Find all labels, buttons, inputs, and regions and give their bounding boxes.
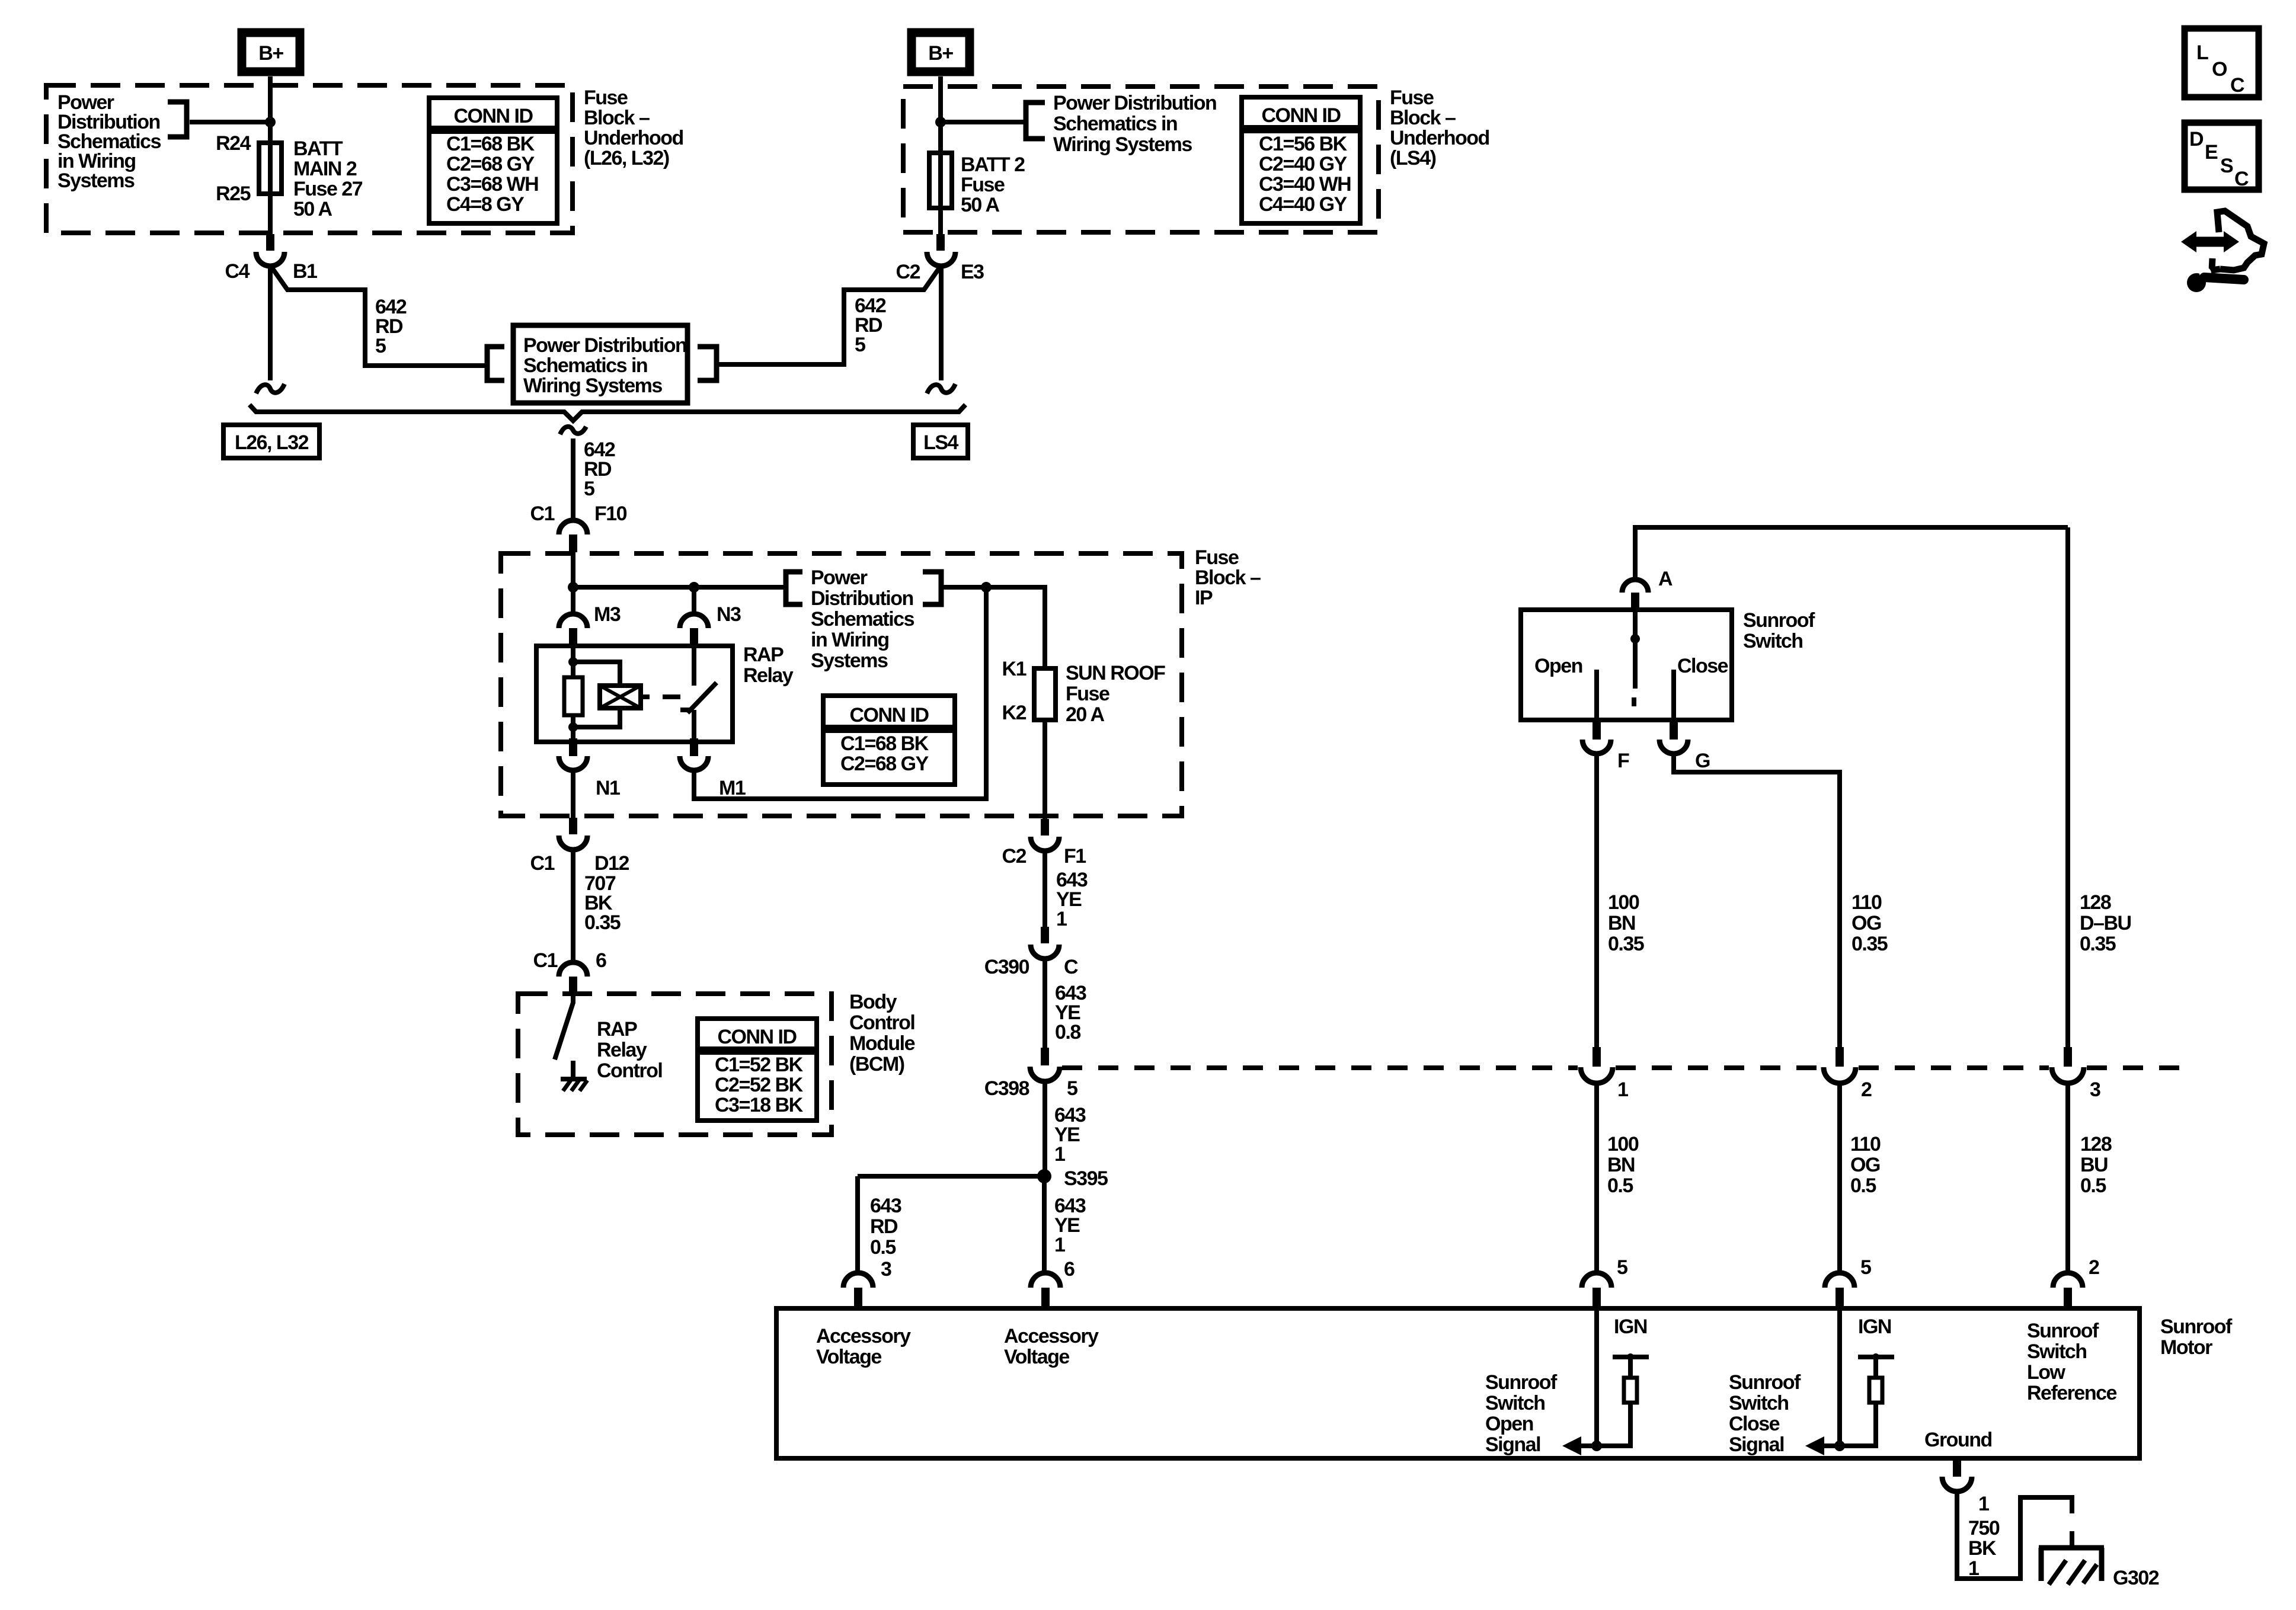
svg-text:Wiring Systems: Wiring Systems xyxy=(523,375,662,397)
svg-text:3: 3 xyxy=(2090,1078,2100,1101)
svg-text:D–BU: D–BU xyxy=(2080,912,2131,934)
connector C1/6 cup xyxy=(559,962,587,977)
svg-text:643: 643 xyxy=(870,1195,901,1217)
svg-text:A: A xyxy=(1658,568,1673,590)
IGN rail tick (close) xyxy=(1858,1355,1894,1359)
svg-text:1: 1 xyxy=(1978,1493,1989,1515)
svg-text:1: 1 xyxy=(1054,1234,1065,1256)
svg-text:R25: R25 xyxy=(216,183,250,205)
CONN ID table (IP) xyxy=(823,696,955,785)
svg-text:Fuse 27: Fuse 27 xyxy=(293,178,363,200)
wire C4 down xyxy=(268,266,273,380)
connector pin 2 cup xyxy=(2053,1273,2083,1288)
connector pin 5 (open) stub xyxy=(1593,1288,1601,1308)
svg-text:100: 100 xyxy=(1607,1133,1639,1156)
svg-text:Control: Control xyxy=(597,1060,662,1082)
svg-text:O: O xyxy=(2212,58,2227,81)
bus wire (fuse block output) xyxy=(250,405,965,421)
svg-text:CONN ID: CONN ID xyxy=(453,105,533,127)
svg-text:C2: C2 xyxy=(1002,845,1027,868)
legend icon: vehicle outline xyxy=(2212,211,2264,270)
svg-text:S395: S395 xyxy=(1064,1167,1108,1190)
svg-text:C: C xyxy=(2230,74,2244,97)
svg-text:110: 110 xyxy=(1850,1133,1881,1156)
svg-text:G: G xyxy=(1695,750,1710,772)
svg-text:CONN ID: CONN ID xyxy=(1261,104,1341,127)
resistor (relay coil suppression) xyxy=(564,677,583,715)
connector M1 cup xyxy=(680,756,708,770)
connector G stub xyxy=(1670,720,1678,740)
svg-text:50 A: 50 A xyxy=(293,198,332,220)
wire to callout bracket xyxy=(190,120,270,124)
svg-text:Relay: Relay xyxy=(743,664,794,687)
svg-text:Schematics: Schematics xyxy=(811,608,914,630)
CONN ID table (BCM) xyxy=(698,1019,817,1121)
svg-text:L: L xyxy=(2196,41,2208,64)
svg-text:C2=40 GY: C2=40 GY xyxy=(1259,153,1348,175)
wire relay fixed contact xyxy=(692,646,696,686)
svg-text:N3: N3 xyxy=(717,603,741,626)
svg-text:0.35: 0.35 xyxy=(1608,933,1644,955)
svg-text:C1=68 BK: C1=68 BK xyxy=(840,732,929,755)
svg-text:IGN: IGN xyxy=(1858,1315,1891,1338)
wire 643 YE 1 (below C398) xyxy=(1043,1081,1047,1176)
svg-text:F: F xyxy=(1617,750,1629,772)
connector pin 6 cup xyxy=(1031,1273,1060,1288)
box: Power Distribution Schematics in Wiring Systems xyxy=(513,325,687,403)
dashed box: Fuse Block - IP xyxy=(501,553,1182,816)
svg-text:0.5: 0.5 xyxy=(870,1236,896,1259)
svg-text:M3: M3 xyxy=(594,603,621,626)
svg-text:B+: B+ xyxy=(258,42,283,65)
DESC legend box xyxy=(2185,123,2259,190)
dashed box: Fuse Block - Underhood (LS4) xyxy=(903,87,1379,232)
ground stub (BCM internal) xyxy=(571,1061,575,1077)
ground symbol (BCM internal) xyxy=(561,1079,587,1091)
svg-text:110: 110 xyxy=(1851,891,1882,914)
svg-text:C1=52 BK: C1=52 BK xyxy=(715,1054,804,1076)
svg-text:Fuse: Fuse xyxy=(961,174,1005,196)
connector F cup xyxy=(1582,740,1611,754)
svg-text:C4=8 GY: C4=8 GY xyxy=(446,193,525,216)
svg-text:BATT 2: BATT 2 xyxy=(961,153,1025,176)
connector pin 5 (open) cup xyxy=(1582,1273,1611,1288)
svg-text:Switch: Switch xyxy=(1485,1392,1545,1414)
svg-text:Signal: Signal xyxy=(1729,1433,1784,1456)
svg-text:BATT: BATT xyxy=(293,137,343,160)
svg-text:OG: OG xyxy=(1850,1154,1880,1176)
svg-text:5: 5 xyxy=(855,334,865,356)
svg-text:750: 750 xyxy=(1968,1517,2000,1539)
connector A cup xyxy=(1622,580,1648,593)
svg-text:RAP: RAP xyxy=(743,644,784,666)
callout bracket (right feed) xyxy=(1026,103,1045,139)
node: switch common dot xyxy=(1630,634,1640,644)
connector pin 2 stub xyxy=(2064,1288,2072,1308)
svg-text:0.35: 0.35 xyxy=(584,911,621,934)
power symbol B+ (right) xyxy=(912,33,970,72)
wire B+ down through fuse xyxy=(268,76,273,234)
bracket left of Power Distribution box xyxy=(487,347,504,380)
connector ground pin stub xyxy=(1953,1458,1961,1477)
CONN ID table (underhood L26,L32) xyxy=(429,98,557,223)
wire F10 into IP block xyxy=(571,552,575,616)
wire 128 D-BU 0.35 xyxy=(2065,527,2070,1047)
connector C1/D12 cup xyxy=(559,836,587,850)
svg-text:Module: Module xyxy=(849,1032,915,1055)
svg-text:SUN ROOF: SUN ROOF xyxy=(1066,662,1165,684)
node: junction dot on B+ feed xyxy=(265,117,276,127)
wire IGN to resistor (close) xyxy=(1873,1357,1878,1378)
fuse BATT MAIN 2 Fuse 27 50A xyxy=(259,143,282,194)
wire 643 RD 0.5 down xyxy=(855,1176,860,1274)
svg-text:Fuse: Fuse xyxy=(1066,683,1109,705)
wire 643 YE 0.8 xyxy=(1043,959,1047,1048)
wire 643 YE 1 down to pin 6 xyxy=(1042,1183,1047,1274)
callout bracket left (IP) xyxy=(786,572,802,604)
connector 1 cup xyxy=(1581,1067,1613,1083)
dashed harness line (BCM boundary) xyxy=(1062,1065,2180,1070)
switch contact open xyxy=(1594,670,1599,720)
svg-text:K2: K2 xyxy=(1002,702,1027,724)
svg-text:K1: K1 xyxy=(1002,658,1027,680)
node: junction dot M3 xyxy=(568,582,578,593)
wire 642 RD 5 down to C1/F10 xyxy=(571,438,575,520)
svg-text:F1: F1 xyxy=(1064,845,1086,868)
svg-text:Control: Control xyxy=(849,1012,914,1034)
svg-text:Switch: Switch xyxy=(1729,1392,1789,1414)
wire resistor to node (close) xyxy=(1840,1403,1876,1446)
connector C4/B1 stub xyxy=(266,234,274,251)
svg-text:E3: E3 xyxy=(961,261,984,283)
svg-text:BU: BU xyxy=(2080,1154,2108,1176)
connector M3 cup xyxy=(559,614,587,628)
node: coil bottom junction xyxy=(568,722,578,732)
svg-text:Accessory: Accessory xyxy=(816,1325,911,1347)
node: IGN dot (open) xyxy=(1627,1353,1634,1361)
svg-text:G302: G302 xyxy=(2113,1567,2159,1589)
connector C390 stub xyxy=(1041,927,1049,943)
svg-text:Open: Open xyxy=(1485,1413,1533,1435)
connector C398 cup xyxy=(1030,1067,1060,1081)
svg-text:Close: Close xyxy=(1677,655,1728,677)
svg-text:0.5: 0.5 xyxy=(2080,1174,2106,1197)
connector pin 5 (close) stub xyxy=(1835,1288,1844,1308)
svg-text:C1: C1 xyxy=(533,949,558,972)
wire coil branch bottom xyxy=(573,708,620,727)
switch contact close xyxy=(1671,670,1676,720)
tag box L26, L32 xyxy=(223,425,319,458)
fuse BATT 2 Fuse 50A xyxy=(929,153,952,208)
svg-text:3: 3 xyxy=(881,1258,891,1281)
svg-text:C1: C1 xyxy=(530,502,555,525)
connector M3 stub xyxy=(569,628,577,646)
svg-text:Voltage: Voltage xyxy=(1004,1346,1069,1368)
svg-text:Signal: Signal xyxy=(1485,1433,1540,1456)
wire A drop xyxy=(1633,525,1638,580)
connector 3 cup xyxy=(2052,1067,2084,1083)
svg-text:0.5: 0.5 xyxy=(1850,1174,1876,1197)
svg-text:B1: B1 xyxy=(293,260,317,283)
relay coil box with X xyxy=(600,686,641,708)
svg-text:0.35: 0.35 xyxy=(1851,933,1888,955)
LOC legend box xyxy=(2185,28,2259,97)
svg-text:128: 128 xyxy=(2080,891,2111,914)
svg-text:C2=52 BK: C2=52 BK xyxy=(715,1074,804,1096)
svg-text:S: S xyxy=(2220,155,2233,177)
node: close signal junction xyxy=(1834,1441,1845,1451)
wire N3 drop xyxy=(692,587,696,615)
svg-text:1: 1 xyxy=(1056,908,1067,930)
svg-text:2: 2 xyxy=(2089,1256,2099,1279)
wire 643 YE 1 xyxy=(1043,851,1047,927)
svg-text:C390: C390 xyxy=(984,956,1029,978)
connector C2/E3 stub xyxy=(936,234,945,251)
svg-text:M1: M1 xyxy=(719,777,746,799)
svg-text:C2=68 GY: C2=68 GY xyxy=(446,153,535,175)
power symbol B+ (left) xyxy=(242,33,300,72)
svg-text:6: 6 xyxy=(1064,1258,1075,1281)
switch common tip dash xyxy=(1632,697,1636,706)
connector C2/E3 cup xyxy=(927,252,955,266)
svg-text:Switch: Switch xyxy=(1743,630,1803,652)
fuse SUN ROOF 20A xyxy=(1034,668,1056,720)
wire B+ down through fuse (right) xyxy=(938,76,943,234)
wire relay M1 return to bus xyxy=(694,587,986,799)
svg-text:Underhood: Underhood xyxy=(1390,127,1489,149)
svg-text:C1: C1 xyxy=(530,852,555,875)
svg-text:C4=40 GY: C4=40 GY xyxy=(1259,193,1348,216)
svg-text:CONN ID: CONN ID xyxy=(717,1026,797,1048)
wire splice branch left xyxy=(858,1174,1044,1179)
connector A stub xyxy=(1631,593,1639,610)
connector pin 6 stub xyxy=(1041,1288,1050,1308)
wire E3 down xyxy=(939,266,944,380)
wire 750 BK to ground xyxy=(1957,1491,2072,1579)
svg-text:IP: IP xyxy=(1195,587,1213,609)
coil actuator tail xyxy=(641,694,650,699)
node: junction dot relay output tap xyxy=(981,582,992,593)
wire relay output xyxy=(692,710,696,738)
node: open signal junction xyxy=(1591,1441,1602,1451)
wire resistor bottom xyxy=(571,715,575,742)
relay switch blade xyxy=(680,683,717,713)
wire from right bracket to 642 RD wire xyxy=(717,362,844,367)
svg-text:Low: Low xyxy=(2027,1361,2066,1384)
svg-text:F10: F10 xyxy=(594,502,627,525)
svg-text:C3=18 BK: C3=18 BK xyxy=(715,1094,804,1116)
svg-text:Sunroof: Sunroof xyxy=(2027,1320,2099,1342)
svg-text:C2=68 GY: C2=68 GY xyxy=(840,753,929,775)
svg-text:50 A: 50 A xyxy=(961,194,1000,216)
svg-text:RAP: RAP xyxy=(597,1018,637,1041)
wire switch common xyxy=(1633,610,1638,689)
svg-text:5: 5 xyxy=(1860,1256,1871,1279)
node: junction dot N3 xyxy=(689,582,699,593)
connector C2/F1 cup xyxy=(1031,837,1059,851)
svg-text:Voltage: Voltage xyxy=(816,1346,881,1368)
svg-text:CONN ID: CONN ID xyxy=(849,704,929,726)
connector 2 cup xyxy=(1824,1067,1856,1083)
connector C1/6 stub xyxy=(569,977,577,994)
svg-text:Ground: Ground xyxy=(1924,1429,1992,1451)
svg-text:Relay: Relay xyxy=(597,1039,647,1061)
svg-text:C4: C4 xyxy=(225,260,250,283)
break squiggle below bus notch xyxy=(560,427,586,434)
dashed box: Body Control Module xyxy=(518,994,832,1135)
connector N3 stub xyxy=(690,628,698,646)
break squiggle on C4 wire xyxy=(256,384,284,393)
connector C2/F1 stub xyxy=(1041,819,1049,836)
svg-text:5: 5 xyxy=(584,478,594,500)
svg-text:BN: BN xyxy=(1608,912,1635,934)
svg-text:E: E xyxy=(2205,141,2218,164)
bracket right of Power Distribution box xyxy=(698,347,717,380)
svg-text:1: 1 xyxy=(1054,1143,1065,1166)
svg-text:IGN: IGN xyxy=(1614,1315,1647,1338)
wire 707 BK xyxy=(571,850,575,964)
callout bracket (left) xyxy=(168,102,187,137)
arrow close signal xyxy=(1805,1436,1840,1455)
node: IGN dot (close) xyxy=(1872,1353,1879,1361)
tag box LS4 xyxy=(913,425,968,458)
wire resistor to node (open) xyxy=(1597,1403,1630,1446)
svg-text:Power Distribution: Power Distribution xyxy=(1053,92,1216,114)
resistor pull-up (close) xyxy=(1869,1378,1882,1403)
svg-text:128: 128 xyxy=(2080,1133,2112,1156)
svg-text:C3=40 WH: C3=40 WH xyxy=(1259,173,1351,196)
svg-text:Fuse: Fuse xyxy=(584,87,628,109)
connector N3 cup xyxy=(680,614,708,628)
svg-text:100: 100 xyxy=(1608,891,1639,914)
svg-text:5: 5 xyxy=(375,335,386,357)
wire fuse K2 down xyxy=(1043,720,1047,819)
svg-text:N1: N1 xyxy=(596,777,620,799)
IGN rail tick (open) xyxy=(1613,1355,1649,1359)
wire B1 to distribution callout xyxy=(272,268,486,366)
svg-text:BK: BK xyxy=(1968,1537,1997,1560)
wire to right callout bracket xyxy=(941,120,1024,124)
svg-text:6: 6 xyxy=(596,949,606,972)
connector ground pin cup xyxy=(1942,1477,1972,1491)
connector 1 stub xyxy=(1593,1047,1601,1067)
connector N1 cup xyxy=(559,756,587,770)
svg-text:(LS4): (LS4) xyxy=(1390,147,1436,169)
svg-text:2: 2 xyxy=(1861,1078,1872,1101)
arrow open signal xyxy=(1562,1436,1597,1455)
connector pin 3 stub xyxy=(854,1288,862,1308)
svg-text:D: D xyxy=(2189,128,2204,151)
dashed box: Fuse Block - Underhood (L26,L32) xyxy=(46,85,573,233)
connector N1 stub xyxy=(569,738,577,756)
svg-text:0.5: 0.5 xyxy=(1607,1174,1633,1197)
connector F stub xyxy=(1593,720,1601,740)
svg-text:Distribution: Distribution xyxy=(811,587,913,610)
wire 110 OG 0.35 xyxy=(1674,754,1840,1047)
wire coil feed xyxy=(571,646,575,677)
wire pin5 close inside xyxy=(1837,1308,1842,1446)
svg-text:5: 5 xyxy=(1067,1077,1077,1100)
wire N1 down to BCM connector xyxy=(571,770,575,818)
svg-text:C2: C2 xyxy=(896,261,920,283)
svg-text:Open: Open xyxy=(1534,655,1582,677)
svg-text:C: C xyxy=(1064,956,1078,978)
break squiggle on E3 wire xyxy=(927,384,955,393)
svg-text:B+: B+ xyxy=(928,42,953,65)
svg-text:Schematics in: Schematics in xyxy=(523,354,647,377)
wire ground drop xyxy=(2070,1531,2074,1548)
connector C1/F10 stub xyxy=(569,534,577,552)
RAP relay control switch blade xyxy=(555,994,573,1060)
connector C1/F10 cup xyxy=(559,520,587,534)
connector 3 stub xyxy=(2064,1047,2072,1067)
svg-text:MAIN 2: MAIN 2 xyxy=(293,158,357,180)
wire 128 BU 0.5 xyxy=(2065,1083,2070,1274)
svg-text:Power Distribution: Power Distribution xyxy=(523,334,686,357)
connector M1 stub xyxy=(690,738,698,756)
wire pin5 open inside xyxy=(1594,1308,1599,1446)
svg-text:Fuse: Fuse xyxy=(1390,87,1434,109)
wire 100 BN 0.35 xyxy=(1594,754,1599,1047)
node: splice S395 xyxy=(1037,1169,1051,1183)
svg-text:Body: Body xyxy=(849,991,897,1013)
svg-text:L26, L32: L26, L32 xyxy=(235,431,309,454)
connector C398 stub xyxy=(1041,1048,1049,1065)
connector 2 stub xyxy=(1835,1047,1844,1067)
svg-text:Block –: Block – xyxy=(1390,107,1456,129)
svg-text:BN: BN xyxy=(1607,1154,1635,1176)
wire bracket to sunroof fuse feed xyxy=(941,587,1045,668)
svg-text:Schematics in: Schematics in xyxy=(1053,113,1177,135)
connector pin 5 (close) cup xyxy=(1825,1273,1854,1288)
node: junction dot on right B+ feed xyxy=(935,117,946,127)
svg-text:C1=56 BK: C1=56 BK xyxy=(1259,133,1348,155)
svg-text:R24: R24 xyxy=(216,132,251,155)
ground G302 symbol xyxy=(2039,1548,2104,1585)
svg-text:Block –: Block – xyxy=(1195,566,1261,589)
svg-text:1: 1 xyxy=(1617,1078,1628,1101)
connector C1/D12 stub xyxy=(569,818,577,834)
svg-text:D12: D12 xyxy=(594,852,629,875)
svg-text:Power: Power xyxy=(811,566,868,589)
svg-text:5: 5 xyxy=(1617,1256,1627,1279)
svg-text:C1=68 BK: C1=68 BK xyxy=(446,133,535,155)
svg-text:Systems: Systems xyxy=(811,649,888,672)
connector G cup xyxy=(1659,740,1688,754)
wire top rail to sunroof switch xyxy=(1635,525,2068,530)
svg-text:in Wiring: in Wiring xyxy=(811,629,889,651)
dashed actuator link xyxy=(663,694,686,699)
svg-text:Sunroof: Sunroof xyxy=(2160,1315,2233,1338)
svg-text:Close: Close xyxy=(1729,1413,1780,1435)
svg-text:Reference: Reference xyxy=(2027,1382,2117,1404)
svg-text:OG: OG xyxy=(1851,912,1881,934)
svg-text:Sunroof: Sunroof xyxy=(1729,1371,1801,1394)
legend icon: wrench xyxy=(2187,267,2244,292)
svg-text:Underhood: Underhood xyxy=(584,127,683,149)
node: coil top junction xyxy=(568,657,578,667)
wire IGN to resistor (open) xyxy=(1628,1357,1633,1378)
box: Sunroof Switch xyxy=(1521,610,1732,720)
svg-text:C398: C398 xyxy=(984,1077,1029,1100)
svg-text:Systems: Systems xyxy=(57,169,135,192)
wire coil branch top xyxy=(573,662,620,686)
svg-text:(L26, L32): (L26, L32) xyxy=(584,147,669,169)
CONN ID table (underhood LS4) xyxy=(1242,97,1360,223)
legend icon: double arrow xyxy=(2181,231,2239,252)
connector C4/B1 cup xyxy=(256,252,284,266)
bus inside IP block xyxy=(573,585,786,590)
